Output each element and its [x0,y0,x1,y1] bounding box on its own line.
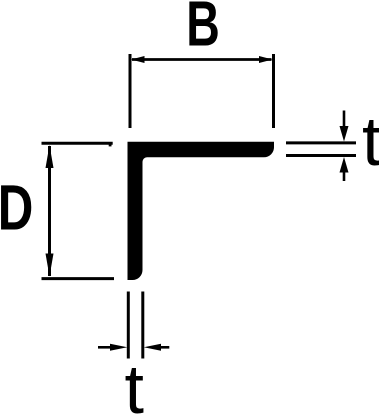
thickness t (bottom): left arrow (pointing right) [98,346,113,349]
dimension D: dimension line [48,146,51,276]
thickness t (right): upper extension line [286,141,356,144]
label D [0,172,33,244]
svg-text:t: t [362,102,379,180]
thickness t (bottom): right arrow (pointing left) [158,346,169,349]
dimension D: small end tick on top extension line [109,144,112,146]
svg-text:B: B [186,0,220,59]
dimension D: bottom arrowhead [46,254,54,277]
dimension D: bottom extension line [42,277,115,280]
dimension B: left arrowhead [131,56,145,63]
dimension D: top extension line [42,142,113,145]
dimension B: right arrowhead [259,56,273,63]
thickness t (right): upper arrow (pointing down) [343,111,346,131]
label B [186,0,220,59]
thickness t (right): lower arrow (pointing up) [343,168,346,181]
dimension B: right extension line [272,54,275,128]
angle profile cross-section (L-shape) [128,142,275,280]
dimension D: top arrowhead [46,145,54,168]
dimension B: dimension line [132,58,272,61]
dimension B: left extension line [129,54,132,128]
svg-text:D: D [0,172,33,244]
thickness t (right): lower extension line [286,154,356,157]
thickness t (bottom): left extension line [127,292,130,359]
svg-text:t: t [125,350,144,415]
thickness t (bottom): right extension line [141,292,144,359]
